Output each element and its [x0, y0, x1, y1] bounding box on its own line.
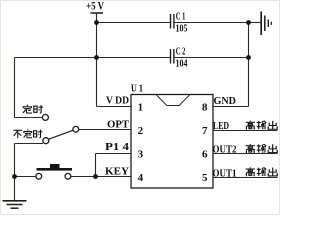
svg-text:OUT2: OUT2	[213, 145, 237, 156]
node C1/right riser	[246, 20, 251, 25]
wire C1 row right	[174, 22, 248, 24]
capacitor C1	[171, 14, 174, 29]
label 定时	[23, 105, 43, 114]
wire KEY row right	[71, 176, 131, 178]
svg-text:+5 V: +5 V	[86, 1, 105, 13]
wire VDD stub	[97, 106, 132, 108]
node stem/C1	[94, 20, 99, 25]
svg-text:P1 4: P1 4	[105, 142, 130, 153]
wire GND stub	[213, 106, 249, 108]
label 高输出 (OUT2 row)	[246, 144, 278, 153]
wire OUT1 line	[213, 177, 278, 179]
ground (top right, rotated)	[261, 12, 271, 36]
wire P14 stub	[96, 153, 132, 155]
label 不定时	[13, 129, 42, 138]
svg-text:LED: LED	[213, 121, 229, 132]
svg-text:105: 105	[176, 24, 188, 35]
IC notch	[157, 95, 190, 106]
wire left vertical lower	[14, 144, 16, 201]
page border	[1, 1, 280, 215]
wire P14 riser	[95, 154, 97, 177]
svg-text:5: 5	[202, 172, 208, 184]
svg-text:V DD: V DD	[106, 96, 129, 107]
ground (bottom left)	[3, 201, 27, 208]
switch blade	[49, 130, 73, 139]
wire left vertical upper	[14, 58, 16, 118]
svg-text:4: 4	[138, 172, 144, 184]
svg-text:6: 6	[202, 148, 208, 160]
node C2/right riser	[246, 55, 251, 60]
svg-text:OUT1: OUT1	[213, 168, 237, 179]
wire KEY row left	[15, 176, 36, 178]
svg-text:1: 1	[138, 101, 144, 113]
svg-text:8: 8	[202, 101, 208, 113]
switch contact (timer)	[42, 114, 48, 120]
wire right riser	[248, 23, 250, 107]
wire +5V stem	[96, 13, 98, 107]
wire OPT stub	[79, 129, 131, 131]
wire C2 row right	[174, 57, 248, 59]
wire OUT2 line	[213, 153, 278, 155]
svg-text:C 1: C 1	[176, 12, 186, 23]
capacitor C2	[171, 49, 174, 64]
pushbutton plunger	[50, 164, 60, 168]
node KEY / P14 riser	[93, 174, 98, 179]
IC U1 body	[131, 95, 213, 189]
switch common contact at OPT	[73, 126, 79, 132]
wire C1 row left	[97, 22, 171, 24]
node stem/C2	[94, 55, 99, 60]
svg-text:KEY: KEY	[105, 166, 129, 177]
svg-text:104: 104	[176, 59, 188, 70]
svg-text:U 1: U 1	[131, 83, 143, 94]
svg-text:7: 7	[202, 125, 208, 137]
switch contact (non-timer)	[43, 138, 49, 144]
wire LED line	[213, 130, 278, 132]
power +5V terminal bar	[91, 12, 104, 14]
label 高输出 (LED row)	[246, 121, 278, 130]
svg-text:C 2: C 2	[176, 47, 186, 58]
wire timer stub	[15, 117, 43, 119]
svg-text:3: 3	[138, 148, 144, 160]
pushbutton S1 contacts	[36, 173, 42, 179]
label 高输出 (OUT1 row)	[246, 167, 278, 176]
wire to right ground	[249, 22, 261, 24]
pushbutton bar	[37, 168, 73, 171]
svg-text:OPT: OPT	[107, 119, 129, 130]
svg-text:2: 2	[138, 125, 144, 137]
wire C2 row left	[15, 57, 171, 59]
node left rail / KEY	[12, 174, 17, 179]
wire non-timer stub	[15, 143, 44, 145]
svg-text:GND: GND	[214, 96, 237, 107]
